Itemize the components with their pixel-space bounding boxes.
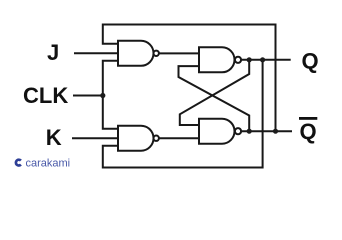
wire: cross-couple Qbar to U3 bottom input — [179, 66, 250, 131]
watermark carakami logo — [16, 160, 21, 166]
wire: Q feedback, right vertical + bottom rail + rise to gate U2 bottom input — [103, 60, 263, 168]
junction Qbar node to cross wire — [247, 129, 252, 134]
wire: Qbar output line — [241, 130, 292, 132]
nand-gate U2 bubble — [154, 136, 159, 141]
wire: U1 output to U3 top input — [159, 52, 199, 54]
svg-text:K: K — [46, 125, 62, 150]
nand-gate U3 (Q latch gate) body — [199, 47, 235, 72]
wire: cross-couple Q to U4 top input — [180, 60, 249, 125]
nand-gate U4 (Qbar latch gate) body — [199, 119, 235, 144]
junction Qbar node to feedback — [273, 129, 278, 134]
junction CLK node — [100, 93, 105, 98]
junction Q node to cross wire — [247, 57, 252, 62]
wire: K input — [72, 137, 118, 139]
wire: CLK input — [73, 95, 103, 97]
label Qbar overbar — [299, 117, 317, 120]
nand-gate U3 bubble — [235, 57, 241, 63]
wire: Q output line — [241, 59, 291, 61]
junction Q node to feedback — [260, 57, 265, 62]
wire: CLK vertical bus with stubs to U1 bottom input and U2 top input — [103, 61, 118, 129]
wire: U2 output to U4 bottom input — [159, 137, 199, 139]
wire: J input — [74, 52, 118, 54]
wire: Qbar feedback, right vertical + top rail + drop to gate U1 top input — [103, 25, 276, 132]
svg-text:J: J — [47, 40, 59, 65]
nand-gate U1 (J input gate) body — [118, 41, 154, 66]
nand-gate U1 bubble — [154, 51, 159, 56]
svg-text:Q: Q — [302, 48, 319, 73]
svg-text:Q: Q — [300, 119, 317, 144]
nand-gate U2 (K input gate) body — [118, 126, 154, 151]
svg-text:carakami: carakami — [26, 158, 71, 170]
svg-text:CLK: CLK — [23, 83, 68, 108]
nand-gate U4 bubble — [235, 128, 241, 134]
